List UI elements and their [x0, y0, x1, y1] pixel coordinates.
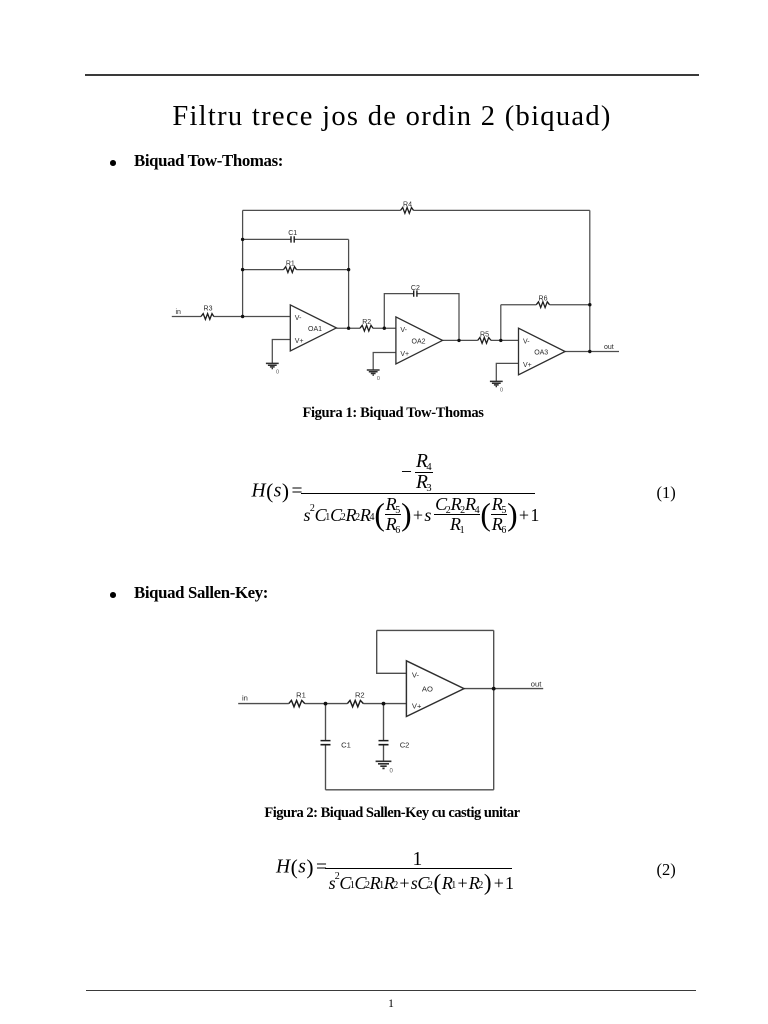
wire C2 branch upper: [383, 704, 385, 741]
capacitor C1: [321, 741, 331, 745]
svg-text:OA1: OA1: [308, 326, 322, 333]
denominator: [304, 495, 540, 535]
ground OA3: [490, 381, 503, 386]
equation 1: [0, 0, 768, 1]
wire R4 line left: [243, 209, 401, 211]
H(s)=: [276, 857, 327, 879]
svg-text:R2: R2: [355, 691, 365, 700]
svg-text:OA3: OA3: [534, 350, 548, 357]
wire C1 branch upper: [325, 704, 327, 741]
wire R1 line right: [297, 269, 349, 271]
wire R3 to OA1 V-: [214, 316, 290, 318]
svg-text:in: in: [176, 309, 182, 316]
wire R1 to R2: [305, 703, 348, 705]
svg-text:R1: R1: [286, 261, 295, 268]
resistor R6: [536, 302, 549, 308]
wire C2 right: [417, 294, 459, 341]
wire OA3 out: [565, 351, 619, 353]
bullet 1 text: [134, 153, 283, 170]
capacitor C1: [291, 236, 294, 242]
svg-text:AO: AO: [422, 684, 433, 693]
wire R2 to OA2 V-: [373, 327, 396, 329]
svg-text:V-: V-: [400, 327, 407, 334]
svg-text:C2: C2: [411, 285, 420, 292]
wire C2 loop: [384, 294, 413, 329]
resistor R5: [478, 338, 491, 344]
op-amp OA2: [396, 317, 443, 364]
junction R1 at input node: [241, 268, 244, 271]
wire R4 line right: [414, 209, 590, 211]
capacitor C2: [379, 741, 389, 745]
bullet 2 text: [134, 585, 268, 602]
resistor R2: [360, 325, 373, 331]
node A left feedback vertical: [242, 210, 244, 316]
svg-text:0: 0: [500, 388, 503, 394]
svg-text:V-: V-: [295, 315, 302, 322]
wire C2 branch to ground: [383, 745, 385, 761]
wire OA2 out to R5: [443, 339, 478, 341]
svg-text:R4: R4: [403, 201, 412, 208]
svg-text:V-: V-: [412, 670, 420, 679]
circuit 2: Biquad Sallen-Key schematic: [230, 620, 550, 805]
junction R6 at feedback vertical: [588, 303, 591, 306]
title: [8, 103, 768, 132]
wire R1 line left: [243, 269, 284, 271]
svg-text:V+: V+: [295, 338, 304, 345]
wire R6 line left: [501, 304, 537, 306]
wire in to R1: [238, 703, 289, 705]
resistor R4: [401, 208, 414, 214]
equation number (1): [657, 483, 676, 503]
ground OA2: [367, 370, 380, 375]
junction input node: [241, 315, 244, 318]
svg-text:C1: C1: [341, 740, 351, 749]
svg-text:V+: V+: [400, 351, 409, 358]
ground: [376, 761, 392, 768]
bullet 2 dot: [110, 592, 116, 598]
wire feedback top: [377, 629, 494, 631]
ground OA1: [266, 363, 279, 368]
bullet 1 dot: [110, 160, 116, 166]
resistor R2: [347, 700, 363, 706]
capacitor C2: [414, 290, 417, 296]
equation number (2): [657, 860, 676, 880]
wire OA1 V+ to ground: [272, 340, 290, 364]
junction OA2 output node: [457, 339, 460, 342]
wire feedback left vertical to V-: [377, 630, 407, 673]
svg-text:0: 0: [377, 376, 380, 382]
wire R6 loop vertical: [500, 305, 502, 341]
svg-text:C2: C2: [400, 740, 410, 749]
junction output node: [588, 350, 591, 353]
wire AO out: [464, 688, 543, 690]
wire right feedback vertical: [589, 210, 591, 351]
wire C1 line right: [294, 238, 348, 240]
caption 2: [8, 806, 768, 821]
svg-text:V-: V-: [523, 338, 530, 345]
numerator -R4/R3: [401, 452, 433, 494]
circuit 1: Biquad Tow-Thomas schematic: [165, 195, 625, 400]
wire OA2 V+ to ground: [373, 353, 396, 370]
wire right feedback vertical: [493, 630, 495, 789]
wire R2 to V+: [363, 703, 406, 705]
footer rule: [86, 990, 696, 991]
wire C1 line left: [243, 238, 291, 240]
main fraction bar: [301, 493, 535, 494]
svg-text:V+: V+: [412, 701, 422, 710]
svg-text:OA2: OA2: [412, 338, 426, 345]
junction OA1 output node: [347, 327, 350, 330]
svg-text:R3: R3: [204, 306, 213, 313]
svg-text:C1: C1: [288, 230, 297, 237]
svg-text:0: 0: [390, 768, 394, 774]
H(s)=: [252, 481, 303, 503]
svg-text:R6: R6: [539, 295, 548, 302]
junction C2 tap at OA2 input: [383, 327, 386, 330]
wire R6 line right: [550, 304, 590, 306]
wire OA3 V+ to ground: [496, 363, 518, 381]
svg-text:R2: R2: [362, 319, 371, 326]
node B right feedback vertical: [348, 239, 350, 328]
wire R5 to OA3 V-: [491, 339, 519, 341]
svg-text:R1: R1: [296, 691, 306, 700]
svg-text:V+: V+: [523, 362, 532, 369]
resistor R1: [289, 700, 305, 706]
wire C1 branch lower: [325, 745, 327, 790]
caption 1: [9, 406, 768, 421]
svg-text:0: 0: [276, 370, 279, 376]
junction R1 at OA1 output branch: [347, 268, 350, 271]
wire OA1 out to R2: [336, 327, 360, 329]
header rule: [85, 74, 699, 76]
junction node R2-C2-V+: [382, 702, 386, 706]
junction node R1-R2-C1: [324, 702, 328, 706]
op-amp AO: [406, 661, 464, 717]
op-amp OA3: [519, 328, 566, 375]
svg-text:in: in: [242, 694, 248, 703]
page number: [7, 999, 768, 1011]
svg-text:out: out: [604, 344, 614, 351]
resistor R1: [284, 267, 297, 273]
numerator 1: [413, 850, 423, 870]
main fraction bar: [325, 868, 512, 869]
svg-text:out: out: [531, 679, 542, 688]
equation 2: [0, 0, 768, 1]
junction node out: [492, 687, 496, 691]
op-amp OA1: [290, 305, 336, 351]
wire in to R3: [172, 316, 201, 318]
junction R6 tap at OA3 input: [499, 339, 502, 342]
resistor R3: [201, 314, 214, 320]
denominator: [329, 870, 514, 896]
svg-text:R5: R5: [480, 331, 489, 338]
junction C1 at input node: [241, 238, 244, 241]
wire bottom return: [326, 789, 494, 791]
